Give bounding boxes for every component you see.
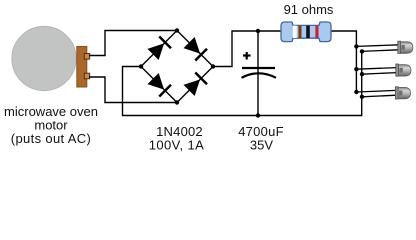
svg-text:100V, 1A: 100V, 1A <box>149 138 205 153</box>
svg-text:35V: 35V <box>250 138 273 153</box>
svg-text:91 ohms: 91 ohms <box>284 2 334 17</box>
svg-text:(puts out AC): (puts out AC) <box>11 131 91 146</box>
